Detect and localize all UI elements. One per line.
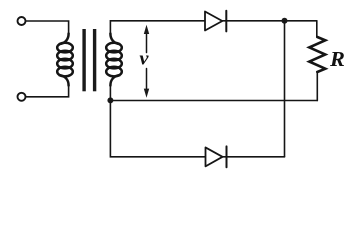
voltage arrow v (double headed) [144, 25, 149, 98]
label R [330, 52, 344, 66]
terminal circle top-left [18, 17, 26, 25]
junction dot node A [282, 18, 288, 24]
wire right vertical (D2 output up to node A) [284, 21, 286, 157]
wire primary bottom [26, 85, 69, 97]
wire resistor bottom lead [316, 72, 318, 101]
wire primary top [26, 21, 69, 34]
diode D1 top [205, 20, 222, 22]
wire middle return (resistor bottom to secondary bottom) [110, 100, 317, 102]
resistor R zigzag [309, 37, 325, 72]
transformer primary winding [57, 34, 73, 86]
transformer secondary winding [106, 34, 122, 86]
label v [140, 55, 149, 64]
wire secondary bottom down [110, 85, 284, 157]
diode D2 bottom [206, 147, 223, 166]
terminal circle bottom-left [18, 93, 26, 101]
junction dot secondary bottom [107, 97, 113, 103]
transformer core bars [82, 29, 96, 91]
wire node A down right branch [316, 21, 318, 37]
wire secondary top to node A [110, 21, 316, 34]
